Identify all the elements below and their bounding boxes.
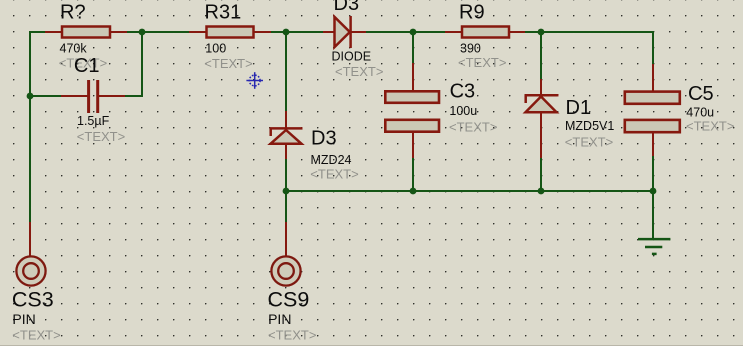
svg-text:<TEXT>: <TEXT> [458,55,506,70]
pin lead capacitor C1 left [61,95,88,97]
wire C1 right up to top net [125,32,142,96]
svg-text:<TEXT>: <TEXT> [12,328,60,343]
svg-text:100u: 100u [449,104,477,118]
svg-text:<TEXT>: <TEXT> [204,56,252,71]
junction top net / C1 branch [139,29,146,36]
bottom edge shade [0,345,743,346]
junction left net / C1 branch [27,93,34,100]
junction rail / ground [650,188,657,195]
capacitor C1 plates [89,80,98,113]
junction top net / D1 branch [538,29,545,36]
svg-text:PIN: PIN [268,311,291,327]
wire C1 left segment [30,95,61,97]
zener D3 symbol [270,128,303,143]
junction top net / D3 branch [283,29,290,36]
wire D3 diode to R9 [366,31,445,33]
svg-text:CS3: CS3 [12,288,54,312]
svg-text:390: 390 [460,41,481,55]
svg-text:<TEXT>: <TEXT> [310,167,358,182]
pin lead capacitor C3 top [412,63,414,91]
pin lead diode D3 cathode [350,31,366,33]
pin lead zener D3 anode [285,144,287,159]
svg-text:MZD24: MZD24 [311,153,352,167]
wire CS9 drop [285,191,287,222]
svg-text:D1: D1 [566,97,592,119]
svg-text:<TEXT>: <TEXT> [686,119,734,134]
svg-text:MZD5V1: MZD5V1 [565,119,614,133]
pin lead resistor R31 right [254,31,271,33]
wire ground stub [652,191,654,238]
junction top net / C3 branch [410,29,417,36]
junction rail / D1 [538,188,545,195]
svg-text:R?: R? [60,1,86,23]
pin lead zener D1 anode [540,112,542,158]
wire left net: R? left lead down to CS3 [30,32,45,222]
wire D1 bottom [540,158,542,191]
resistor R31 body [207,27,254,38]
svg-text:CS9: CS9 [268,288,310,312]
resistor R? body [62,27,110,38]
pin lead capacitor C3 bottom [412,132,414,158]
ground [638,239,670,254]
svg-text:470k: 470k [60,41,88,55]
svg-text:<TEXT>: <TEXT> [268,328,316,343]
svg-text:<TEXT>: <TEXT> [77,129,125,144]
wire R31 to D3 diode [271,31,323,33]
pin lead resistor R? right [110,31,127,33]
wire C5 bottom [652,156,654,191]
pin lead capacitor C5 bottom [652,133,654,157]
svg-text:<TEXT>: <TEXT> [449,120,497,135]
svg-text:470u: 470u [686,105,714,119]
svg-text:<TEXT>: <TEXT> [565,134,613,149]
capacitor C3 plates [385,91,439,131]
junction rail / C3 [410,188,417,195]
svg-text:C3: C3 [450,81,476,103]
pin lead resistor R9 left [445,31,462,33]
origin marker [246,72,263,89]
svg-text:D3: D3 [311,128,337,150]
diode D3 symbol [335,16,351,48]
wire R9 to C5 corner [525,32,653,64]
wire C3 top tap [412,32,414,63]
terminal CS3 [16,256,45,285]
resistor R9 body [462,27,509,38]
wire D3 zener bottom [285,159,287,191]
svg-text:C5: C5 [688,83,714,105]
pin lead resistor R? left [45,31,62,33]
wire ground rail [286,190,653,192]
svg-text:C1: C1 [74,55,100,77]
pin lead zener D1 cathode [540,79,542,95]
pin lead capacitor C5 top [652,64,654,91]
svg-text:100: 100 [205,41,226,55]
pin lead terminal CS3 [29,222,31,256]
wire D3 zener top [285,32,287,111]
zener D1 symbol [525,95,559,112]
pin lead terminal CS9 [285,222,287,256]
terminal CS9 [271,256,300,285]
svg-text:PIN: PIN [12,311,35,327]
svg-text:DIODE: DIODE [332,49,372,63]
junction rail / CS9 [283,188,290,195]
svg-text:D3: D3 [334,0,360,15]
pin lead capacitor C1 right [99,95,126,97]
wire D1 top tap [540,32,542,79]
svg-text:1.5µF: 1.5µF [77,114,110,128]
wire top net R? to R31 [127,31,189,33]
pin lead resistor R9 right [509,31,525,33]
pin lead diode D3 anode [323,31,334,33]
svg-text:<TEXT>: <TEXT> [335,64,383,79]
pin lead resistor R31 left [189,31,206,33]
svg-text:R9: R9 [459,1,485,23]
pin lead zener D3 cathode [285,111,287,128]
wire C3 bottom [412,158,414,191]
svg-text:R31: R31 [205,1,242,23]
capacitor C5 plates [625,92,680,133]
